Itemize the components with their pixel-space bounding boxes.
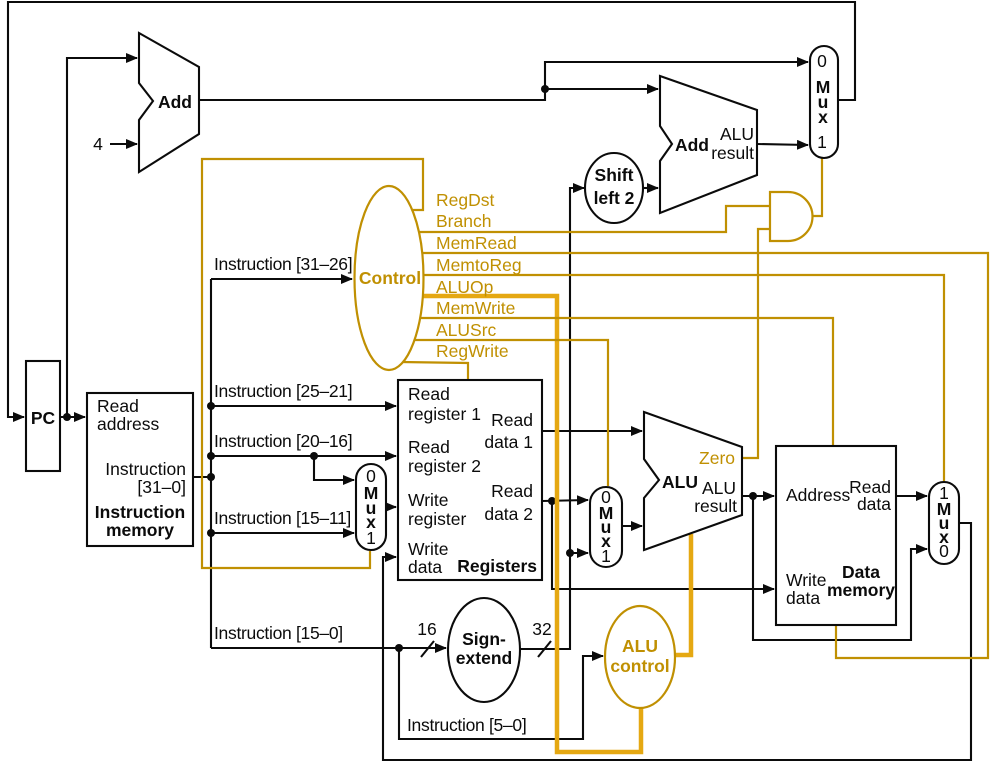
data memory box bbox=[776, 446, 896, 625]
wire RegDst control line (gold) bbox=[202, 159, 423, 568]
wire MemWrite control line (gold) bbox=[418, 318, 833, 445]
svg-text:Instruction: Instruction bbox=[105, 459, 186, 479]
instruction memory box bbox=[87, 393, 193, 546]
svg-text:0: 0 bbox=[817, 51, 827, 71]
svg-text:0: 0 bbox=[939, 541, 949, 561]
svg-text:Instruction [15–0]: Instruction [15–0] bbox=[214, 623, 343, 643]
junction dot bus 20-16 bbox=[207, 452, 215, 460]
oval Control bbox=[355, 186, 424, 370]
wire Add output PC+4 bbox=[200, 62, 808, 100]
wire PC to instruction memory read address bbox=[60, 416, 85, 418]
wire Instruction 25-21 to read register 1 bbox=[211, 405, 396, 407]
svg-text:MemWrite: MemWrite bbox=[436, 298, 515, 318]
svg-text:memory: memory bbox=[827, 580, 895, 600]
svg-text:1: 1 bbox=[366, 528, 376, 548]
svg-text:memory: memory bbox=[106, 520, 174, 540]
oval Shift left 2 bbox=[585, 153, 643, 223]
wire PC+4 tap to branch adder top input bbox=[545, 88, 658, 90]
wire read data 1 to ALU bbox=[542, 430, 642, 432]
svg-text:Write: Write bbox=[786, 570, 827, 590]
svg-text:Zero: Zero bbox=[699, 448, 735, 468]
svg-text:Read: Read bbox=[97, 396, 139, 416]
wire read data 2 to ALUSrc mux input 0 bbox=[542, 500, 588, 501]
svg-text:1: 1 bbox=[817, 132, 827, 152]
svg-text:Instruction [31–26]: Instruction [31–26] bbox=[214, 254, 352, 274]
ALU bbox=[644, 412, 742, 550]
svg-text:RegWrite: RegWrite bbox=[436, 341, 509, 361]
svg-text:Read: Read bbox=[491, 481, 533, 501]
svg-text:control: control bbox=[610, 656, 669, 676]
svg-text:[31–0]: [31–0] bbox=[137, 477, 186, 497]
junction dot ALU result bbox=[749, 492, 757, 500]
wire Branch control line (gold) bbox=[417, 206, 770, 232]
wire branch adder result to mux input 1 bbox=[757, 144, 808, 145]
mux RegDst (0/1) bbox=[356, 464, 386, 550]
svg-text:Instruction [15–11]: Instruction [15–11] bbox=[214, 508, 351, 528]
wire shift left 2 to branch adder bbox=[643, 187, 658, 189]
svg-text:Data: Data bbox=[842, 562, 880, 582]
svg-text:ALU: ALU bbox=[662, 472, 698, 492]
junction dot bus 31-0 bbox=[207, 473, 215, 481]
wire sign extend tap to ALUSrc mux input 1 bbox=[570, 552, 588, 554]
svg-text:Sign-: Sign- bbox=[462, 629, 506, 649]
wire AND gate output to branch mux select (gold) bbox=[812, 157, 822, 216]
svg-text:PC: PC bbox=[31, 408, 56, 428]
junction dot bus 15-11 bbox=[207, 529, 215, 537]
svg-text:Registers: Registers bbox=[457, 556, 537, 576]
PC register box bbox=[26, 361, 60, 471]
svg-text:Branch: Branch bbox=[436, 211, 491, 231]
svg-text:Control: Control bbox=[359, 268, 421, 288]
svg-text:Read: Read bbox=[408, 437, 450, 457]
wire 4 into Add bbox=[110, 143, 137, 145]
svg-text:Instruction: Instruction bbox=[95, 502, 185, 522]
wire Instruction 20-16 to read register 2 bbox=[211, 455, 396, 457]
svg-text:x: x bbox=[818, 107, 828, 127]
svg-text:Shift: Shift bbox=[595, 165, 634, 185]
wire MemRead control line (gold) bbox=[420, 253, 988, 658]
svg-text:Instruction [5–0]: Instruction [5–0] bbox=[407, 715, 526, 735]
junction dot 20-16 tap bbox=[310, 452, 318, 460]
svg-text:data: data bbox=[857, 494, 891, 514]
adder Add ALU result (branch) bbox=[660, 76, 757, 213]
svg-text:ALUOp: ALUOp bbox=[436, 277, 493, 297]
junction dot PC output bbox=[63, 413, 71, 421]
svg-text:4: 4 bbox=[93, 134, 103, 154]
wire PC to Add (PC value up) bbox=[67, 58, 137, 417]
svg-text:Instruction [20–16]: Instruction [20–16] bbox=[214, 431, 352, 451]
svg-text:result: result bbox=[711, 143, 754, 163]
wire ALU result to data memory address bbox=[742, 495, 774, 497]
wire read data 2 to data memory write data bbox=[552, 501, 774, 589]
svg-text:Write: Write bbox=[408, 490, 449, 510]
adder Add (PC+4) bbox=[139, 33, 199, 172]
svg-text:MemtoReg: MemtoReg bbox=[436, 255, 522, 275]
wire Instruction 15-0 to sign extend bbox=[211, 647, 446, 649]
svg-text:register 2: register 2 bbox=[408, 456, 481, 476]
wire Instruction 31-26 to Control bbox=[211, 278, 352, 280]
wire ALU control to ALU (thick gold) bbox=[674, 534, 691, 655]
svg-text:data: data bbox=[408, 557, 442, 577]
wire ALUOp control line (thick gold) bbox=[421, 296, 641, 752]
svg-text:RegDst: RegDst bbox=[436, 190, 494, 210]
wire Instruction 20-16 branch to RegDst mux input 0 bbox=[314, 456, 354, 480]
wire memtoreg mux output writeback to registers write data bbox=[383, 523, 971, 760]
wire sign extend output up to shift left 2 bbox=[520, 188, 584, 649]
svg-text:Address: Address bbox=[786, 485, 850, 505]
svg-text:left 2: left 2 bbox=[594, 188, 635, 208]
svg-text:MemRead: MemRead bbox=[436, 233, 517, 253]
junction dot bus 25-21 bbox=[207, 402, 215, 410]
svg-text:extend: extend bbox=[456, 648, 512, 668]
wire data memory read data to mux input 1 bbox=[896, 495, 927, 497]
wire ALUSrc mux output to ALU bbox=[622, 525, 642, 527]
junction dot PC+4 tap bbox=[541, 85, 549, 93]
junction dot sign extend tap bbox=[566, 549, 574, 557]
junction dot read data 2 bbox=[548, 497, 556, 505]
oval ALU control bbox=[605, 606, 675, 708]
wire PC feedback: mux output to PC input bbox=[8, 2, 855, 417]
wire RegDst mux output to write register bbox=[386, 506, 396, 508]
wire MemtoReg control line (gold) bbox=[421, 275, 944, 481]
svg-text:ALU: ALU bbox=[720, 124, 754, 144]
wire ALU result bypass under data memory to mux input 0 bbox=[753, 496, 927, 640]
svg-text:data 1: data 1 bbox=[484, 432, 533, 452]
svg-text:Read: Read bbox=[408, 384, 450, 404]
svg-text:register: register bbox=[408, 509, 467, 529]
svg-text:Add: Add bbox=[675, 135, 709, 155]
mux branch (0/1 top right) bbox=[810, 46, 838, 158]
svg-text:result: result bbox=[694, 496, 737, 516]
svg-text:Instruction [25–21]: Instruction [25–21] bbox=[214, 381, 352, 401]
wire ALUSrc control line (gold) bbox=[412, 340, 608, 486]
svg-text:32: 32 bbox=[532, 619, 551, 639]
svg-text:ALU: ALU bbox=[622, 636, 658, 656]
svg-text:Add: Add bbox=[158, 92, 192, 112]
svg-text:register 1: register 1 bbox=[408, 404, 481, 424]
wire instruction bus vertical bbox=[193, 279, 211, 477]
wire Instruction 15-11 to RegDst mux input 1 bbox=[211, 532, 354, 534]
AND gate (branch) bbox=[770, 192, 813, 241]
oval Sign-extend bbox=[448, 598, 520, 702]
svg-text:address: address bbox=[97, 414, 160, 434]
wire Instruction 5-0 to ALU control bbox=[399, 648, 603, 739]
svg-text:data: data bbox=[786, 588, 820, 608]
svg-text:ALUSrc: ALUSrc bbox=[436, 320, 497, 340]
wire Zero flag to AND gate (gold) bbox=[742, 229, 770, 458]
svg-text:1: 1 bbox=[601, 546, 611, 566]
registers box bbox=[398, 380, 542, 580]
junction dot instruction 15-0 tap to ALU control bbox=[395, 644, 403, 652]
svg-text:data 2: data 2 bbox=[484, 504, 533, 524]
mux ALUSrc (0/1) bbox=[590, 487, 622, 567]
wire RegWrite control line (gold) bbox=[401, 362, 468, 379]
svg-text:Read: Read bbox=[491, 410, 533, 430]
svg-text:ALU: ALU bbox=[702, 478, 736, 498]
mux MemtoReg (1/0 right) bbox=[929, 482, 959, 564]
svg-text:16: 16 bbox=[417, 619, 436, 639]
svg-text:Write: Write bbox=[408, 539, 449, 559]
